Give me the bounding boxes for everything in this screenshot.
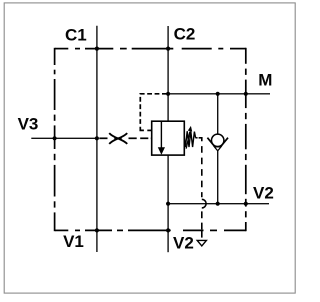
valve U1 body [152,121,185,155]
spring drain stub [195,137,197,139]
vent triangle [197,240,206,246]
check valve branch lower wire [217,151,219,204]
orifice (restrictor X) [109,133,127,144]
spring (adjustable) [184,131,195,147]
wire V2 horizontal [168,203,269,205]
svg-text:C1: C1 [65,25,87,44]
pilot line from orifice to valve (dashed) [129,137,152,139]
wire M horizontal [168,93,270,95]
pilot corner into valve [140,127,144,131]
svg-text:V2: V2 [173,234,194,253]
check valve branch upper wire [217,94,219,135]
wire V3 horizontal [31,137,97,139]
wire C1 vertical line [96,26,98,252]
orifice center dash [114,137,121,139]
check valve seat [207,138,217,151]
drain stub through enclosure [201,230,203,238]
svg-text:V3: V3 [18,115,39,134]
enclosure top edge (chain line) [55,48,246,50]
spring adjust arrow [186,132,190,149]
wire C2 vertical upper [167,26,169,121]
enclosure bottom edge (chain line) [55,229,246,231]
check valve seat apex triangle [214,147,221,151]
svg-text:C2: C2 [174,25,196,44]
drain line dashed lower [201,211,203,229]
wire C2/V2 vertical lower [167,155,169,252]
drain line dashed upper [199,138,202,197]
drain hop over V2 line [202,199,206,208]
svg-text:V1: V1 [63,232,84,251]
enclosure left edge (chain line) [54,48,56,231]
junction dots [95,47,99,51]
pilot line from M/C2 node (dashed) [140,94,167,127]
svg-text:M: M [258,71,272,90]
svg-text:V2: V2 [253,184,274,203]
valve internal flow arrow [160,121,162,148]
pilot line from V3 (dashed, left of orifice) [99,137,107,139]
check valve ball [212,134,224,146]
enclosure right edge (chain line) [245,48,247,231]
